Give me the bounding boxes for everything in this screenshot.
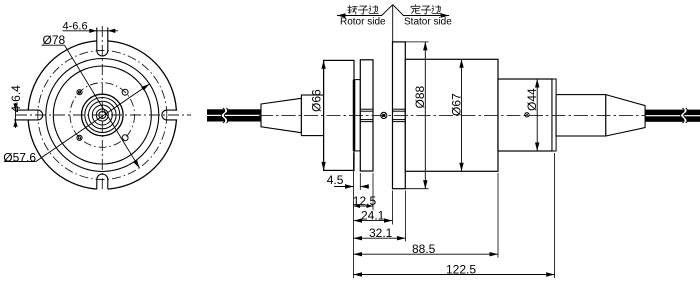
stator end cylinder Ø44 xyxy=(498,79,552,151)
stator plate Ø88 xyxy=(393,42,406,189)
extension line x=392.5 xyxy=(392,191,394,225)
dim Ø67 xyxy=(461,59,463,171)
svg-text:4-6.4: 4-6.4 xyxy=(9,85,23,113)
svg-text:Stator side: Stator side xyxy=(404,17,452,28)
stator end disc xyxy=(552,79,556,151)
front view horizontal centerline xyxy=(16,114,191,116)
extension line x=353.5 xyxy=(353,153,355,278)
leader line for Ø57.6 xyxy=(4,161,36,163)
extension line x=360.3 xyxy=(359,173,361,190)
svg-text:Ø67: Ø67 xyxy=(449,93,463,116)
extension line x=373 xyxy=(372,173,374,210)
stator side arrow line xyxy=(393,5,449,16)
screw hole NW xyxy=(77,90,82,95)
front view vertical centerline xyxy=(101,26,103,192)
stator plate bore lines xyxy=(393,108,406,110)
screw hole SW xyxy=(77,135,82,140)
rotor cable cone (left) xyxy=(261,98,301,132)
stator body circle Ø67 xyxy=(46,59,159,172)
label stator side CN 边 xyxy=(432,6,441,14)
label stator side CN 定 xyxy=(411,5,420,14)
svg-text:Ø57.6: Ø57.6 xyxy=(3,150,36,164)
svg-text:Rotor side: Rotor side xyxy=(340,17,386,28)
svg-text:Ø78: Ø78 xyxy=(43,33,66,47)
rotor neck xyxy=(355,80,361,151)
flange outer circle (front view) xyxy=(28,41,176,189)
svg-text:Ø44: Ø44 xyxy=(525,88,539,111)
circle Ø57.6 xyxy=(53,66,151,164)
position symbol at Ø44 xyxy=(525,113,529,117)
stator cable gland nut (right) xyxy=(556,95,606,136)
rotor flange disc xyxy=(360,60,373,171)
gap screw symbol xyxy=(381,112,387,118)
rotor cable (left) xyxy=(207,109,261,115)
rotor/stator divider line xyxy=(392,5,394,42)
cable break (right) xyxy=(682,108,686,123)
stator cable cone (right) xyxy=(606,95,645,136)
rotor flange bore lines xyxy=(360,108,373,110)
mounting slot left xyxy=(14,110,43,120)
leader line for Ø78 xyxy=(42,44,65,46)
cable break (left) xyxy=(223,108,227,123)
center boss circles xyxy=(82,94,124,136)
mounting slot top xyxy=(97,28,108,57)
screw hole NE xyxy=(122,89,128,95)
rotor housing face line xyxy=(352,80,354,151)
rotor cable gland nut (left) xyxy=(301,95,323,136)
screw hole circle (dash-dot) xyxy=(70,83,135,148)
label rotor side CN 子 xyxy=(359,6,368,14)
extension line x=498 xyxy=(497,173,499,258)
svg-text:4.5: 4.5 xyxy=(327,173,344,187)
dim Ø88 xyxy=(405,41,428,43)
rotor housing Ø66 xyxy=(324,60,354,170)
svg-text:Ø66: Ø66 xyxy=(309,89,323,112)
side view main centerline xyxy=(259,114,646,116)
dim Ø44 xyxy=(536,79,538,151)
screw hole SE xyxy=(122,135,128,141)
label rotor side CN 边 xyxy=(369,6,378,14)
dim Ø66 xyxy=(323,60,325,170)
mounting slot bottom xyxy=(97,174,108,189)
label rotor side CN 转 xyxy=(348,6,357,14)
stator body Ø67 xyxy=(405,59,498,171)
label stator side CN 子 xyxy=(421,6,430,14)
rotor side arrow line xyxy=(337,5,393,16)
bolt circle Ø78 (dash-dot) xyxy=(38,51,167,180)
extension line x=554.6 xyxy=(554,153,556,278)
extension line x=405.5 xyxy=(405,191,407,242)
svg-text:Ø88: Ø88 xyxy=(413,85,427,108)
stator cable (right) xyxy=(645,110,700,116)
mounting slot right xyxy=(162,110,177,120)
